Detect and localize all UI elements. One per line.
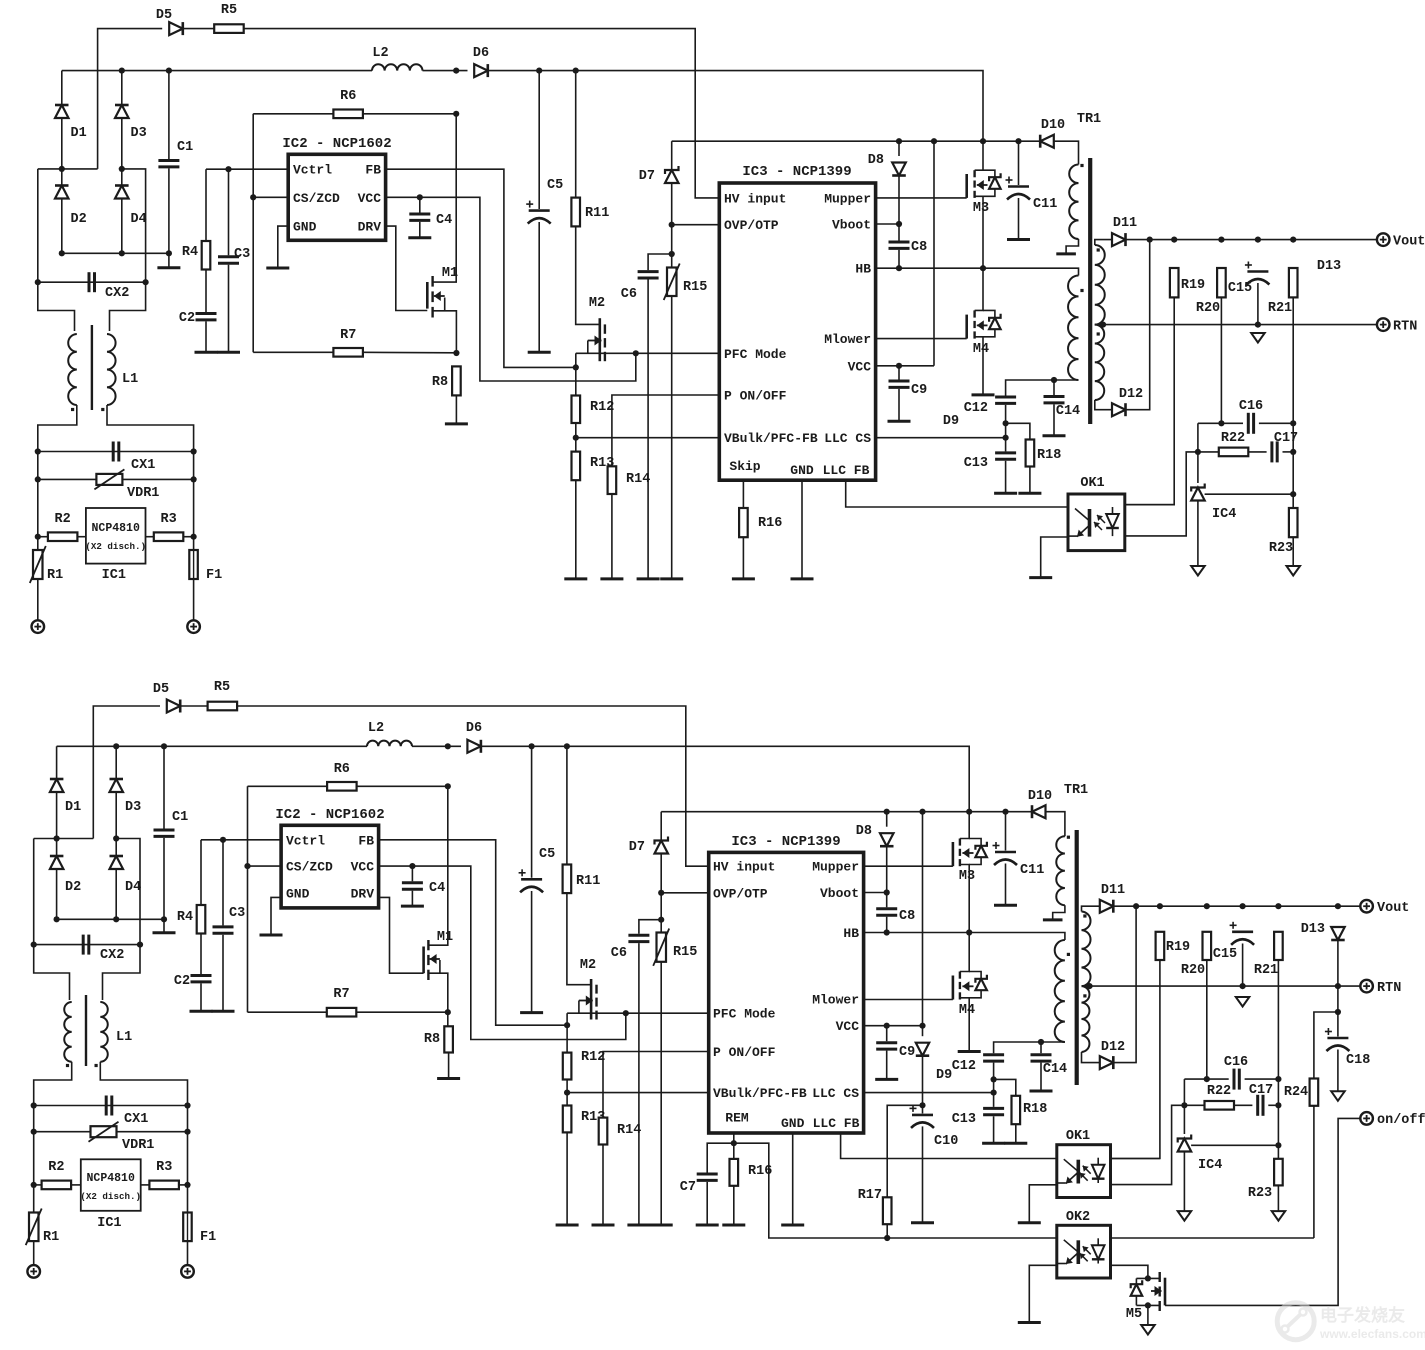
label C11 [1033,197,1057,212]
wire VCC net [379,866,626,1039]
wire R11 to M2 gate [576,226,600,324]
label C9 [911,383,927,398]
label IC4 [1198,1158,1222,1173]
resistor R13 [572,452,581,481]
svg-text:R18: R18 [1037,448,1061,463]
svg-text:D7: D7 [629,840,645,855]
wire C14 to gnd [1053,404,1055,435]
inductor L1 right winding [100,1002,107,1062]
svg-text:C4: C4 [436,213,452,228]
junction D4 bottom [119,250,125,256]
capacitor C3 [218,257,239,263]
label R11 [585,206,609,221]
label RTN [1393,320,1417,335]
IC U IC1 NCP4810 [86,508,146,564]
ground R16 [722,1224,745,1227]
label D3 [125,800,141,815]
wire F1 top [187,1185,189,1213]
inductor L1 left winding [68,334,77,405]
label D5 [156,8,172,23]
svg-text:R24: R24 [1284,1085,1308,1100]
label D4 [131,212,147,227]
transistor M1 [424,940,429,980]
ground OK1 [1029,576,1052,579]
svg-text:C7: C7 [680,1180,696,1195]
junction center tap [1100,322,1106,328]
phasing dot L1 left [71,408,74,411]
wire IC3 GND col [801,480,803,579]
phasing dot L1 right [95,1064,98,1067]
resistor R21 [1274,932,1283,960]
wire C10 col [922,1105,924,1113]
svg-text:D8: D8 [856,824,872,839]
svg-text:C11: C11 [1033,197,1057,212]
wire D4 to neg bus [115,870,117,920]
svg-text:C10: C10 [934,1134,958,1149]
svg-text:RTN: RTN [1393,320,1417,335]
terminal AC line 1 [32,620,45,633]
diode D10 [1040,135,1054,148]
label M4 [959,1003,975,1018]
label C8 [911,240,927,255]
label R12 [590,400,614,415]
label R16 [748,1164,772,1179]
arrow M3 body [962,848,973,858]
wire M4 diode bottom lead [969,991,981,998]
junction D13 RTN [1335,983,1341,989]
wire R24 top lead [1314,1012,1338,1079]
svg-text:R4: R4 [177,910,193,925]
wire R4 col [205,169,207,241]
ground IC4 [1191,566,1205,576]
label IC2 title [275,807,384,823]
junction R19 top [1157,903,1163,909]
wire bulk bus left [57,745,164,747]
junction R6 right [453,111,459,117]
label R21 [1268,301,1292,316]
junction C9 top [884,1023,890,1029]
svg-text:R16: R16 [758,516,782,531]
optocoupler OK1 [1068,494,1125,551]
capacitor CX2 [89,272,95,292]
junction C15 RTN [1255,322,1261,328]
junction R20 top [1204,903,1210,909]
label C17 [1274,431,1298,446]
wire OK1 cathode gnd [1041,537,1068,578]
wire aux rail [661,811,1032,813]
wire left col to R2 [33,1132,35,1185]
IC U IC1 NCP4810 [81,1159,141,1211]
wire M4 diode top lead [969,972,981,979]
fuse F1 [189,550,198,579]
label IC1 [97,1216,121,1231]
terminal RTN [1360,980,1373,993]
junction CS node [991,1090,997,1096]
winding TR1 primary upper [1069,165,1078,239]
label R1 [47,568,63,583]
wire AC2 row [116,839,140,945]
svg-text:LLC FB: LLC FB [823,463,870,478]
ground R8 [437,1077,460,1080]
svg-text:Vout: Vout [1377,901,1409,916]
wire D4 col [115,839,117,856]
capacitor C3 [213,927,234,933]
junction D4 bottom [113,916,119,922]
transistor M2 [591,979,596,1020]
svg-text:D1: D1 [71,126,87,141]
label D9 [936,1068,952,1083]
zener D7 [655,837,669,854]
ground C5 [520,1011,543,1014]
svg-text:D2: D2 [65,880,81,895]
label R14 [626,472,650,487]
svg-text:R1: R1 [47,568,63,583]
wire D6 to bulk corner [481,746,969,811]
pin Mupper [812,860,859,875]
svg-text:FB: FB [365,163,381,178]
svg-text:D10: D10 [1028,789,1052,804]
capacitor C10 [910,1105,935,1128]
junction AC1 [54,835,60,841]
diode D4 [110,856,124,869]
svg-text:R2: R2 [48,1160,64,1175]
junction Vboot C8 [884,889,890,895]
label M2 [580,958,596,973]
IC U IC3 NCP1399 [709,852,864,1133]
junction M5 drain [1145,1275,1151,1281]
wire D4 col [121,169,123,185]
terminal on/off [1360,1112,1373,1125]
svg-text:C13: C13 [964,456,988,471]
junction VBulk [564,1090,570,1096]
IC U IC3 NCP1399 [719,183,875,480]
svg-text:C17: C17 [1249,1083,1273,1098]
svg-text:DRV: DRV [351,886,375,901]
junction D2 bottom [54,916,60,922]
svg-text:R18: R18 [1023,1102,1047,1117]
svg-text:L1: L1 [116,1030,132,1045]
label F1 [200,1230,216,1245]
wire secondary top to D11 [1095,240,1112,245]
diode D11 [1112,233,1126,246]
diode D1 [50,779,64,792]
wire C4 col [411,866,413,881]
ground C11 [994,904,1017,907]
winding TR1 secondary upper [1082,912,1091,987]
wire D11 to Vout [1126,239,1377,241]
label NCP4810 [87,1172,135,1185]
ground C10 [911,1221,934,1224]
wire R14 to gnd [602,1145,604,1226]
label C1 [177,140,193,155]
junction VDR left [31,1129,37,1135]
ground C13 [982,1142,1005,1145]
label C7 [680,1180,696,1195]
junction bulk M3 [966,809,972,815]
wire HB line [864,933,1065,941]
wire C10 to gnd [922,1126,924,1222]
winding TR1 secondary upper [1095,245,1105,325]
wire CX2 to L1 right [103,945,141,1000]
wire R19 to OK1 [1111,960,1160,1159]
junction C3 top [225,166,231,172]
svg-text:R15: R15 [683,280,707,295]
wire C4 to gnd [419,222,421,238]
wire C11 to gnd [1005,864,1007,906]
arrow M4 body [977,320,988,330]
wire R1 to terminal [33,1241,35,1265]
resistor R16 [739,508,748,537]
svg-text:R3: R3 [160,512,176,527]
ground M4 [958,1050,981,1053]
wire IC4 col [1197,452,1199,483]
label M5 [1126,1307,1142,1322]
label Vout [1393,235,1425,250]
junction C1 top [161,743,167,749]
junction R21 top [1290,237,1296,243]
junction C9 top [896,363,902,369]
wire AC1 row [38,168,98,170]
wire C12 bottom [1005,405,1007,423]
svg-text:D3: D3 [125,800,141,815]
svg-text:R11: R11 [576,874,600,889]
wire M4 source [975,337,983,395]
svg-text:(X2 disch.): (X2 disch.) [85,541,146,552]
label R4 [182,245,198,260]
svg-text:M3: M3 [959,869,975,884]
label R22 [1221,431,1245,446]
wire OVP line [661,892,709,894]
ground R23 [1272,1211,1286,1221]
resistor R20 [1217,268,1226,297]
phasing dot primary lower [1080,289,1083,292]
svg-text:P ON/OFF: P ON/OFF [713,1045,776,1060]
phasing dot secondary upper [1083,914,1086,917]
pin Mlower [812,992,859,1007]
wire C16 line b [1259,422,1293,424]
label R19 [1181,278,1205,293]
label M4 [973,342,989,357]
svg-text:Mlower: Mlower [824,332,871,347]
wire VCC line [876,365,934,367]
label IC2 title [282,136,391,152]
label D3 [131,126,147,141]
ground IC3 [781,1224,804,1227]
ground OK1 [1018,1221,1041,1224]
svg-text:D12: D12 [1119,387,1143,402]
svg-text:R12: R12 [590,400,614,415]
junction HB C8 [884,929,890,935]
diode D6 [467,740,481,753]
ground C2 [195,351,218,354]
diode D5 [167,700,180,713]
resistor R7 [327,1008,357,1017]
svg-text:VDR1: VDR1 [127,486,159,501]
wire D8 to Vboot [898,176,900,224]
resistor R20 [1203,932,1212,960]
label M2 [589,296,605,311]
junction center tap [1086,983,1092,989]
wire IC4 ref line [1205,493,1294,495]
svg-text:Vboot: Vboot [820,886,859,901]
wire C9 col [886,1026,888,1042]
wire bus to L2 [169,70,372,72]
transistor M4 [953,972,960,1000]
resistor R5 [214,24,244,33]
junction HB mid [980,265,986,271]
wire D5 to R5 [183,28,215,30]
wire R21 col [1277,960,1279,1159]
wire D9 col [922,1026,924,1037]
pin VCC [351,860,375,875]
shunt regulator IC4 [1191,484,1205,501]
capacitor C12 [995,397,1016,403]
label D10 [1041,118,1065,133]
svg-text:Vctrl: Vctrl [293,163,332,178]
label C8 [899,909,915,924]
svg-text:R3: R3 [156,1160,172,1175]
wire D7 to C6 node [660,893,662,920]
wire R1 top [33,1185,35,1213]
wire C14 lead [1053,380,1055,395]
wire IC4 top col [1183,1079,1185,1105]
junction C5 col [536,68,542,74]
diode D10 [1032,805,1046,818]
wire D7 to OVP [671,183,673,225]
ground C7 [696,1224,719,1227]
inductor L1 right winding [107,334,116,405]
junction C4 top [417,194,423,200]
junction CX1 right [191,448,197,454]
svg-text:R4: R4 [182,245,198,260]
wire C7 lead [707,1143,734,1172]
wire R18 to gnd [1029,467,1031,494]
svg-text:R5: R5 [214,680,230,695]
label R5 [221,3,237,18]
pin GND [293,220,317,235]
wire VCC aux col [922,812,924,1026]
wire R3 right [179,1184,188,1186]
junction M5 source [1145,1302,1151,1308]
svg-text:OK1: OK1 [1066,1129,1090,1144]
junction C11 top [1002,809,1008,815]
svg-text:L2: L2 [372,46,388,61]
ground C9 [888,420,911,423]
ground C6 [627,1224,650,1227]
label D1 [65,800,81,815]
pin VCC [836,1019,860,1034]
capacitor CX2 [83,935,89,955]
wire bridge neg bus [62,252,169,254]
phasing dot primary upper [1080,164,1083,167]
junction Vboot C8 [896,221,902,227]
wire D3 col [121,71,123,105]
capacitor C5 [526,201,551,224]
terminal Vout [1360,900,1373,913]
wire D5 to R5 [180,705,208,707]
body diode M5 [1131,1280,1143,1296]
phasing dot primary upper [1067,836,1070,839]
capacitor CX1 [113,442,119,462]
wire R11 to M2 gate [567,893,591,985]
phasing dot secondary upper [1097,248,1100,251]
resistor R2 [48,532,78,541]
label D12 [1119,387,1143,402]
svg-text:P ON/OFF: P ON/OFF [724,389,787,404]
label C13 [952,1112,976,1127]
label C4 [429,881,445,896]
label R6 [334,762,350,777]
svg-text:C6: C6 [621,287,637,302]
svg-text:M2: M2 [589,296,605,311]
wire C11 col [1005,812,1007,851]
wire R22 lead [1184,1104,1204,1106]
label R22 [1207,1084,1231,1099]
wire M5 source gnd [1147,1305,1149,1325]
svg-text:R23: R23 [1248,1186,1272,1201]
svg-text:NCP4810: NCP4810 [87,1172,135,1185]
svg-text:R20: R20 [1181,963,1205,978]
svg-text:D11: D11 [1101,883,1125,898]
svg-text:R19: R19 [1166,940,1190,955]
arrow M3 body [977,180,988,190]
svg-text:C12: C12 [964,401,988,416]
wire D8 top lead [886,812,888,827]
label D6 [473,46,489,61]
pin FB [365,163,381,178]
wire M2 source down [566,1013,568,1025]
svg-text:F1: F1 [206,568,222,583]
wire C4 to gnd [411,891,413,906]
wire C15 to RTN [1257,283,1259,325]
wire R7 to junction [356,1011,448,1013]
ground M5 [1141,1325,1155,1335]
pin PFC Mode [713,1007,776,1022]
label C9 [899,1045,915,1060]
label D13 [1301,922,1325,937]
capacitor C12 [983,1055,1004,1061]
label R18 [1023,1102,1047,1117]
wire R13 to gnd [575,480,577,579]
capacitor C8 [889,242,910,248]
resistor R19 [1170,268,1179,297]
svg-text:PFC Mode: PFC Mode [724,347,787,362]
junction CS/ZCD [250,194,256,200]
wire D2 to neg bus [61,199,63,253]
ground R18 [1018,492,1041,495]
svg-text:C3: C3 [234,247,250,262]
wire M3 drain [960,812,969,839]
diode D12 [1112,403,1126,416]
wire R4 to C2 [200,934,202,975]
wire R6 line left [253,113,333,115]
wire RTN line [1082,985,1361,987]
pin VCC [848,359,872,374]
wire R20 to C16 line [1206,960,1208,1079]
wire secondary top to D11 [1082,906,1101,911]
svg-text:C11: C11 [1020,863,1044,878]
wire IC4 col [1183,1105,1185,1134]
pin LLC CS [812,1086,859,1101]
junction R19 top [1171,237,1177,243]
junction D8 top [884,809,890,815]
capacitor C11 [1006,177,1031,200]
svg-text:CX2: CX2 [105,286,129,301]
label IC4 [1212,507,1236,522]
capacitor C9 [889,381,910,387]
optocoupler OK2 [1057,1225,1111,1278]
capacitor C16 [1248,413,1253,434]
